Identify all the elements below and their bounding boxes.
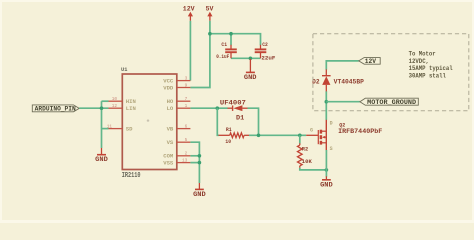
capacitor C1 bbox=[216, 42, 237, 60]
svg-text:R2: R2 bbox=[302, 145, 309, 152]
svg-text:15AMP typical: 15AMP typical bbox=[409, 65, 453, 72]
wire source to ground bbox=[325, 150, 327, 177]
svg-text:5: 5 bbox=[185, 138, 188, 143]
diode D1 UF4007 bbox=[220, 99, 248, 121]
ground cap GND bbox=[244, 59, 257, 81]
svg-text:G: G bbox=[310, 127, 313, 133]
svg-text:+: + bbox=[147, 119, 150, 125]
wire 12V tag to D2 bbox=[326, 61, 358, 70]
wire R1 left branch bbox=[217, 108, 219, 135]
pin SD 11 bbox=[107, 125, 133, 133]
svg-text:1: 1 bbox=[185, 104, 188, 109]
net label MOTOR_GROUND bbox=[360, 98, 418, 106]
svg-text:12V: 12V bbox=[365, 58, 376, 65]
wire ARDUINO_PIN to LIN bbox=[79, 107, 108, 109]
svg-text:22uF: 22uF bbox=[261, 55, 275, 61]
pin VB 6 bbox=[167, 125, 191, 133]
svg-text:7: 7 bbox=[185, 97, 188, 102]
pin LO 1 bbox=[167, 104, 191, 112]
wire 5V to VDD bbox=[190, 21, 210, 88]
svg-text:R1: R1 bbox=[226, 126, 232, 133]
pin HO 7 bbox=[167, 97, 191, 105]
pin VSS 13 bbox=[163, 159, 190, 167]
power symbol 12V bbox=[183, 6, 195, 21]
svg-text:GND: GND bbox=[244, 74, 257, 81]
node MOTOR_GROUND junction bbox=[325, 100, 329, 104]
wire R2 bottom to source bbox=[300, 168, 327, 170]
node 5V/cap junction bbox=[208, 32, 212, 36]
power symbol 5V bbox=[206, 6, 214, 21]
node D1/R1 left junction bbox=[216, 106, 220, 110]
svg-text:GND: GND bbox=[95, 156, 108, 163]
node source junction bbox=[325, 168, 329, 172]
svg-text:UF4007: UF4007 bbox=[220, 99, 246, 106]
wire 12V to VCC bbox=[189, 21, 191, 81]
svg-text:2: 2 bbox=[185, 152, 188, 157]
svg-text:5V: 5V bbox=[206, 6, 214, 13]
node LIN junction bbox=[100, 106, 104, 110]
wire cap rail top bbox=[210, 34, 261, 46]
svg-text:GND: GND bbox=[320, 181, 333, 188]
svg-text:30AMP stall: 30AMP stall bbox=[409, 73, 447, 80]
svg-text:10: 10 bbox=[225, 138, 231, 145]
wire HIN link bbox=[102, 100, 109, 102]
node gate junction bbox=[257, 134, 261, 138]
wire R2 top lead bbox=[299, 135, 301, 143]
wire VSS link bbox=[190, 162, 199, 164]
svg-text:IR2110: IR2110 bbox=[122, 172, 141, 180]
svg-text:S: S bbox=[330, 146, 333, 152]
svg-text:VT4045BP: VT4045BP bbox=[334, 79, 365, 86]
node C1 top junction bbox=[229, 32, 233, 36]
svg-text:D1: D1 bbox=[236, 114, 245, 121]
pin VCC 3 bbox=[163, 77, 190, 85]
svg-text:0.1uF: 0.1uF bbox=[216, 54, 229, 60]
net label ARDUINO_PIN bbox=[32, 105, 79, 113]
svg-text:10: 10 bbox=[112, 97, 118, 102]
svg-text:9: 9 bbox=[185, 83, 188, 88]
svg-text:SD: SD bbox=[126, 126, 133, 133]
svg-text:3: 3 bbox=[185, 77, 188, 82]
wire C1 top lead bbox=[230, 34, 232, 46]
svg-text:GND: GND bbox=[193, 191, 206, 198]
wire cap rail bottom bbox=[231, 57, 261, 59]
svg-text:C1: C1 bbox=[221, 42, 227, 48]
svg-text:D: D bbox=[330, 121, 333, 127]
ground mid GND bbox=[193, 183, 206, 198]
svg-text:12VDC,: 12VDC, bbox=[409, 58, 429, 65]
wire LO to gate network bbox=[190, 107, 227, 109]
pin VS 5 bbox=[167, 138, 191, 146]
svg-text:VB: VB bbox=[167, 126, 174, 133]
node R2 junction bbox=[298, 134, 302, 138]
svg-text:ARDUINO_PIN: ARDUINO_PIN bbox=[35, 106, 76, 113]
note To Motor text bbox=[409, 50, 453, 79]
svg-text:VDD: VDD bbox=[163, 84, 174, 91]
svg-text:6: 6 bbox=[185, 125, 188, 130]
ground left GND bbox=[95, 148, 108, 163]
svg-text:To Motor: To Motor bbox=[409, 50, 436, 57]
wire SD link bbox=[102, 128, 109, 130]
wire input trunk vertical bbox=[101, 101, 103, 148]
node cap GND junction bbox=[249, 57, 253, 61]
pin COM 2 bbox=[163, 152, 190, 160]
pin HIN 10 bbox=[109, 97, 136, 105]
pin VDD 9 bbox=[163, 83, 190, 91]
wire D1 right to junction bbox=[248, 108, 259, 135]
node COM junction bbox=[198, 154, 202, 158]
wire COM link bbox=[190, 155, 199, 157]
capacitor C2 bbox=[255, 42, 276, 62]
svg-text:C2: C2 bbox=[262, 42, 268, 48]
net label 12V bbox=[359, 58, 381, 66]
svg-text:LO: LO bbox=[167, 105, 174, 112]
wire VS to trunk bbox=[190, 142, 199, 183]
wire drain trunk bbox=[325, 91, 327, 120]
svg-text:MOTOR_GROUND: MOTOR_GROUND bbox=[367, 99, 416, 106]
dashed motor boundary box bbox=[313, 34, 469, 111]
pin LIN 12 bbox=[109, 104, 136, 112]
transistor Q2 IRFB7440PbF bbox=[306, 120, 383, 153]
svg-text:12: 12 bbox=[112, 104, 118, 109]
ground bottom GND bbox=[320, 176, 333, 188]
svg-text:10K: 10K bbox=[302, 158, 313, 165]
wire MOTOR_GROUND bbox=[326, 101, 360, 103]
resistor R1 10 bbox=[219, 126, 250, 145]
svg-text:LIN: LIN bbox=[126, 105, 136, 112]
IC U1 IR2110 body bbox=[121, 67, 177, 180]
svg-text:13: 13 bbox=[182, 159, 188, 164]
svg-text:IRFB7440PbF: IRFB7440PbF bbox=[338, 128, 383, 135]
svg-text:12V: 12V bbox=[183, 6, 195, 13]
node VSS junction bbox=[198, 161, 202, 165]
wire gate net bbox=[249, 134, 306, 136]
diode D2 VT4045BP bbox=[312, 69, 364, 91]
svg-text:U1: U1 bbox=[121, 67, 127, 73]
svg-text:HO: HO bbox=[167, 98, 174, 105]
svg-text:HIN: HIN bbox=[126, 98, 136, 105]
svg-text:VSS: VSS bbox=[163, 160, 174, 167]
resistor R2 10K bbox=[298, 143, 313, 168]
svg-text:VS: VS bbox=[167, 139, 174, 146]
